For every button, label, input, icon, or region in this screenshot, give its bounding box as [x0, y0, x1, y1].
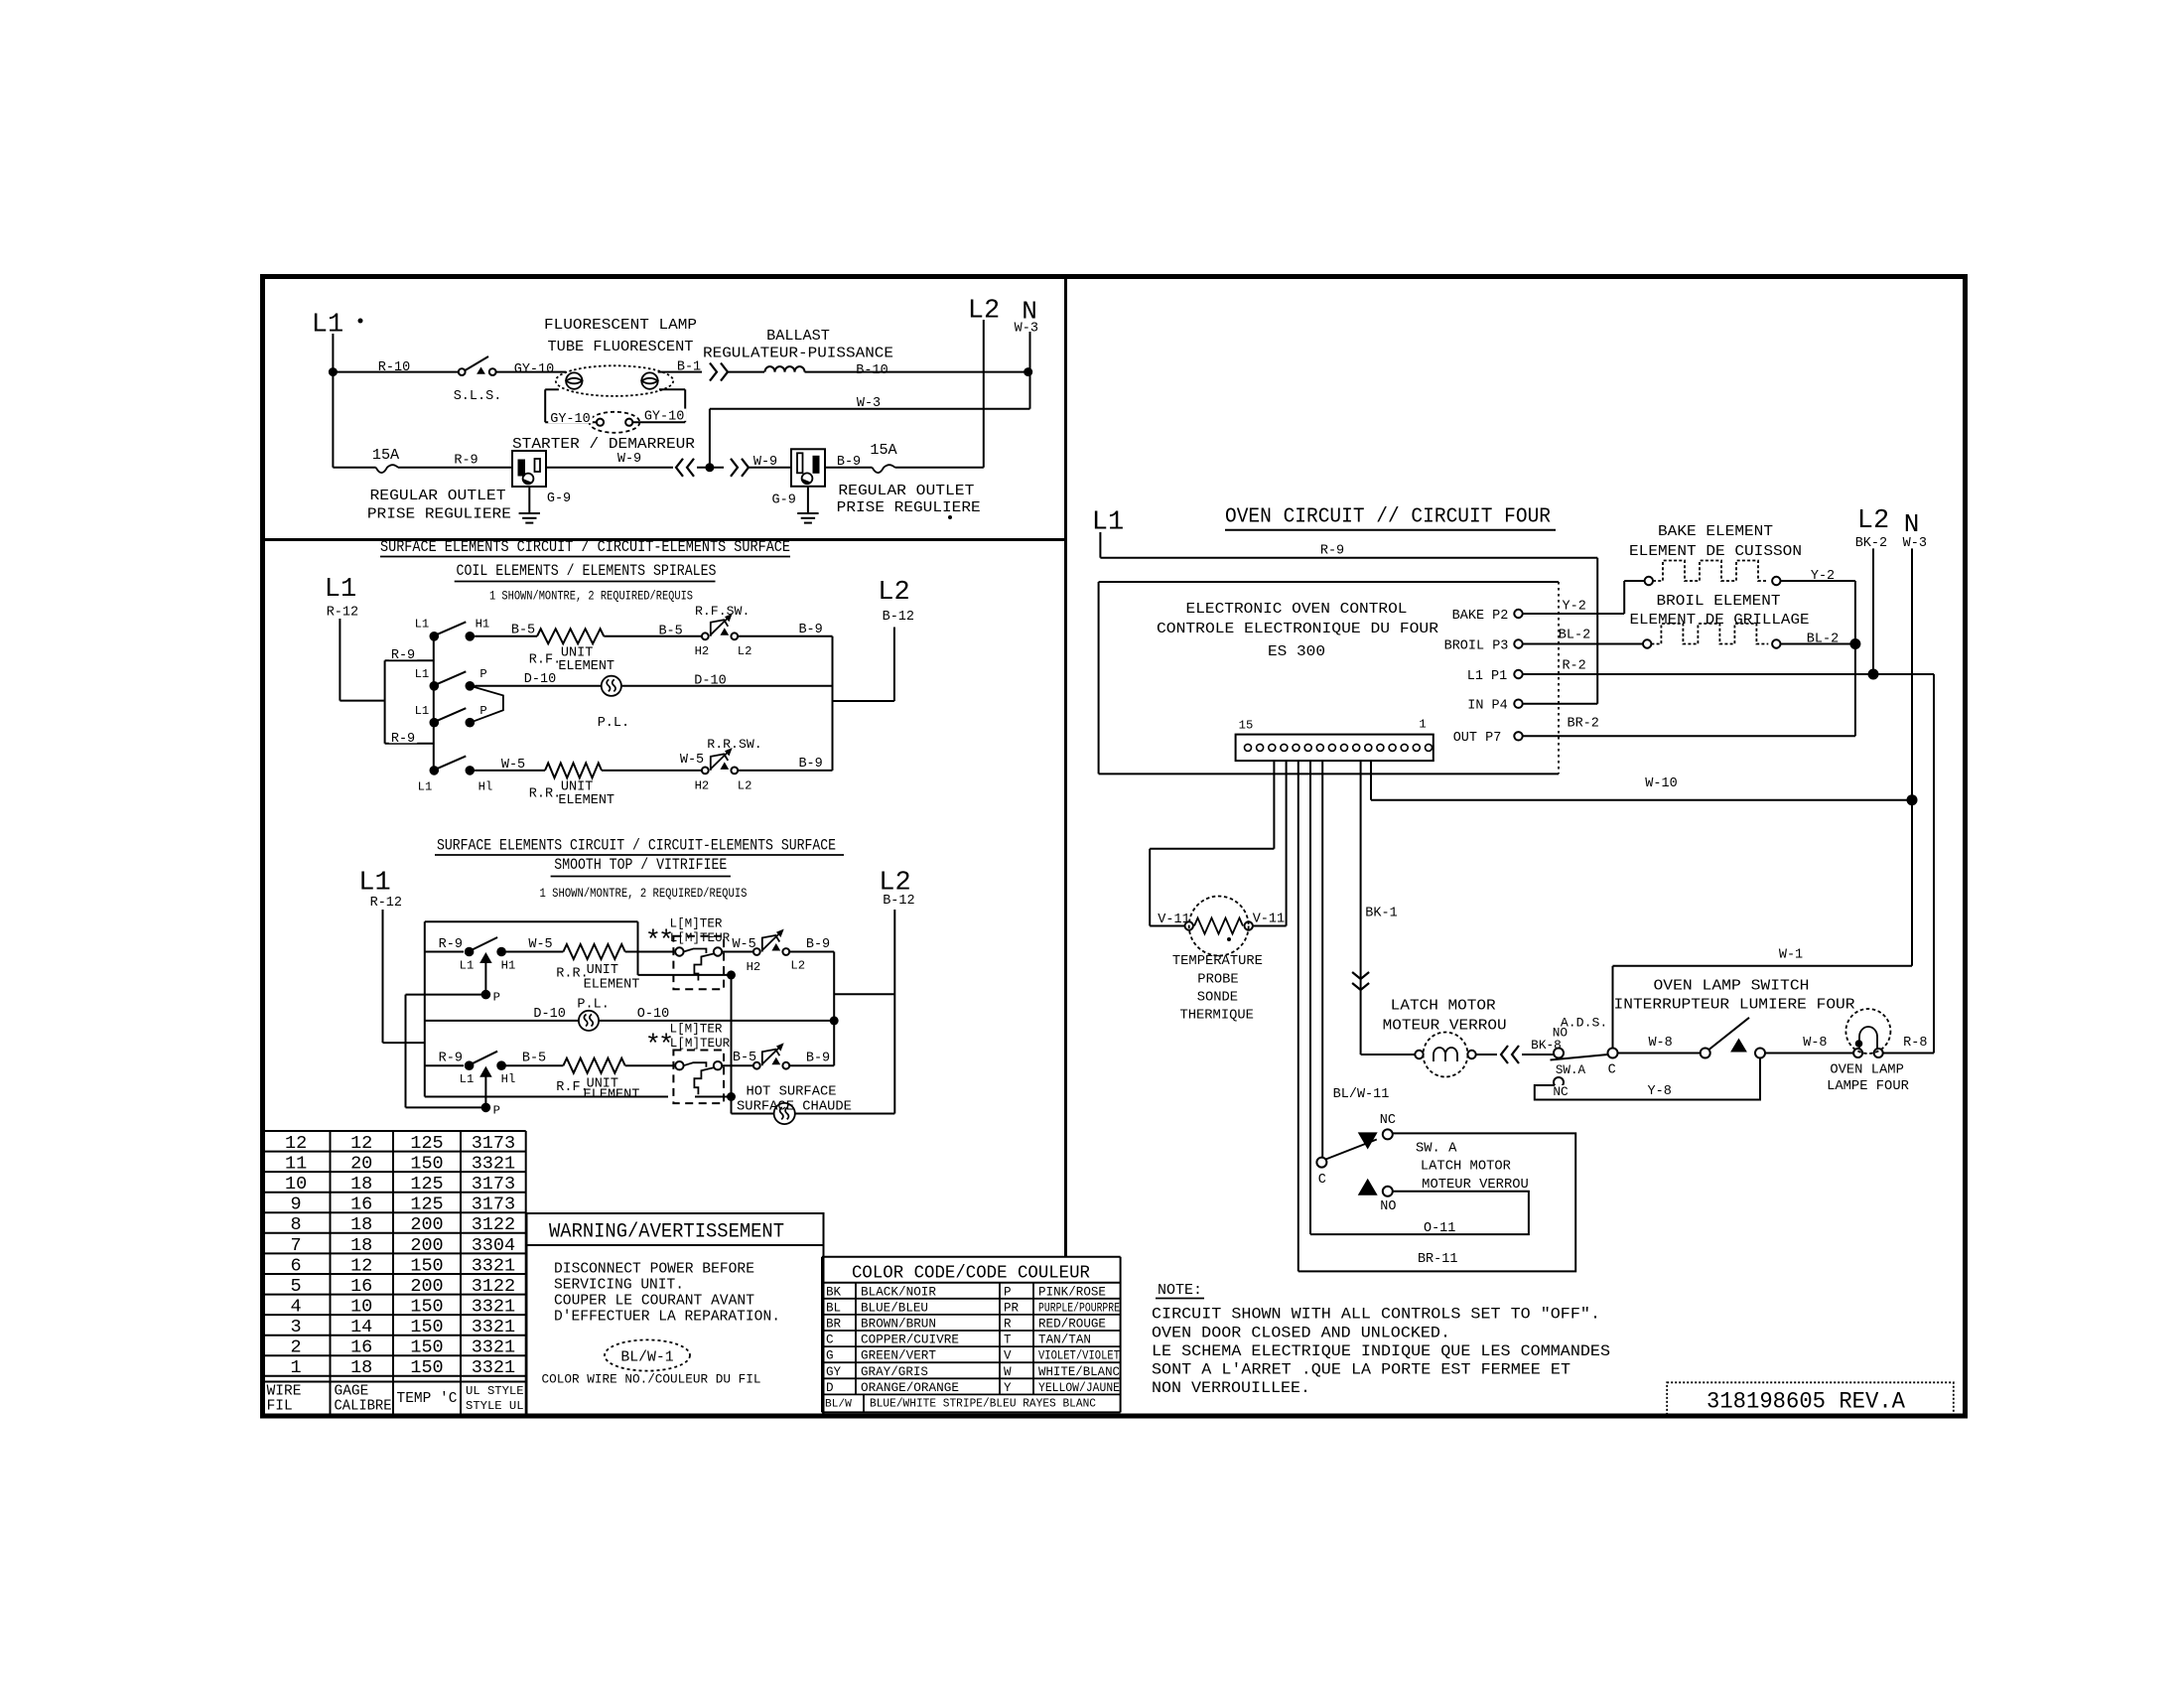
wire W-8 right [1765, 1053, 1853, 1055]
svg-text:ELECTRONIC OVEN CONTROL: ELECTRONIC OVEN CONTROL [1186, 600, 1408, 618]
svg-text:L[M]TER: L[M]TER [670, 1023, 723, 1037]
svg-text:FLUORESCENT LAMP: FLUORESCENT LAMP [544, 316, 697, 334]
svg-text:BL/W-11: BL/W-11 [1333, 1087, 1390, 1102]
svg-text:R-12: R-12 [370, 896, 402, 911]
svg-text:L1: L1 [312, 311, 343, 341]
limiter R.R. smooth [673, 936, 724, 990]
svg-text:6: 6 [291, 1255, 302, 1276]
svg-text:3122: 3122 [472, 1276, 515, 1297]
svg-text:2: 2 [291, 1337, 302, 1358]
svg-text:P.L.: P.L. [598, 716, 629, 731]
svg-text:150: 150 [410, 1297, 443, 1318]
wire L1 drop oven [1099, 532, 1101, 558]
svg-text:C: C [1608, 1062, 1616, 1077]
svg-text:15A: 15A [372, 446, 400, 464]
svg-text:L1: L1 [415, 704, 430, 718]
svg-text:Y-8: Y-8 [1648, 1084, 1672, 1099]
svg-text:WHITE/BLANC: WHITE/BLANC [1038, 1365, 1120, 1379]
svg-text:4: 4 [291, 1297, 302, 1318]
svg-text:L[M]TER: L[M]TER [670, 917, 723, 931]
svg-text:NON VERROUILLEE.: NON VERROUILLEE. [1152, 1379, 1310, 1397]
border divider vertical [1064, 276, 1067, 1257]
label starter [510, 436, 697, 450]
wire P row1 link left [406, 994, 486, 996]
svg-text:OUT P7: OUT P7 [1453, 731, 1502, 746]
svg-text:8: 8 [291, 1214, 302, 1235]
svg-text:BAKE ELEMENT: BAKE ELEMENT [1658, 522, 1773, 540]
resistor R.F. unit element smooth [563, 1058, 624, 1073]
wire BAKE P2 Y-2 [1523, 613, 1625, 615]
switch R.F. infinite [702, 633, 709, 639]
svg-text:H1: H1 [476, 617, 490, 631]
svg-text:COIL ELEMENTS / ELEMENTS SPIRA: COIL ELEMENTS / ELEMENTS SPIRALES [457, 562, 717, 580]
svg-text:OVEN DOOR CLOSED AND UNLOCKED.: OVEN DOOR CLOSED AND UNLOCKED. [1152, 1325, 1450, 1342]
wire W-10 [1370, 761, 1372, 800]
svg-text:**: ** [645, 927, 671, 957]
svg-text:3173: 3173 [472, 1174, 515, 1195]
svg-text:C: C [1318, 1173, 1326, 1188]
svg-text:L1: L1 [460, 958, 475, 972]
svg-text:O-10: O-10 [637, 1007, 669, 1022]
svg-text:14: 14 [350, 1317, 372, 1337]
svg-text:18: 18 [350, 1235, 372, 1256]
wire Y-2 to L2 node [1781, 580, 1855, 582]
oven lamp [1845, 1009, 1890, 1054]
svg-text:1 SHOWN/MONTRE, 2 REQUIRED/REQ: 1 SHOWN/MONTRE, 2 REQUIRED/REQUIS [489, 588, 693, 603]
svg-text:P: P [479, 704, 486, 718]
wire BL/W-11 drop [1297, 761, 1299, 1271]
svg-text:B-9: B-9 [806, 937, 830, 952]
chevron pair right [731, 459, 738, 477]
svg-text:O-11: O-11 [1424, 1221, 1455, 1236]
svg-text:R-9: R-9 [391, 648, 415, 663]
svg-text:3321: 3321 [472, 1255, 515, 1276]
wire N vertical [1029, 332, 1031, 409]
svg-text:10: 10 [285, 1174, 307, 1195]
svg-text:18: 18 [350, 1357, 372, 1378]
limiter R.F. smooth [673, 1051, 724, 1104]
svg-text:P: P [479, 667, 486, 681]
wire label B-10 [854, 362, 890, 374]
svg-text:BL/W: BL/W [825, 1399, 852, 1411]
svg-text:SONT A L'ARRET .QUE LA PORTE E: SONT A L'ARRET .QUE LA PORTE EST FERMEE … [1152, 1361, 1570, 1379]
svg-text:B-9: B-9 [798, 623, 822, 637]
svg-text:12: 12 [285, 1133, 307, 1154]
wire L2 vertical [983, 320, 985, 468]
wire O-11 drop [1309, 761, 1311, 1234]
svg-text:B-12: B-12 [883, 894, 914, 909]
wire R-9 oven [1100, 557, 1597, 559]
switch oven lamp [1701, 1049, 1710, 1058]
wire B-10 [805, 371, 1028, 373]
fuse 15A right [873, 465, 895, 473]
wire limiter2 lower terminal right [695, 1096, 729, 1098]
wire R-9 [398, 467, 512, 469]
svg-text:STARTER / DEMARREUR: STARTER / DEMARREUR [512, 435, 695, 453]
wire limiter1 lower terminal [638, 974, 730, 976]
svg-text:L1: L1 [415, 617, 430, 631]
svg-text:BK-1: BK-1 [1365, 906, 1397, 920]
svg-text:12: 12 [350, 1255, 372, 1276]
junction P smooth row1 [481, 990, 491, 1000]
svg-text:S.L.S.: S.L.S. [454, 389, 502, 404]
connector strip [1236, 735, 1433, 762]
svg-text:CIRCUIT SHOWN WITH ALL CONTROL: CIRCUIT SHOWN WITH ALL CONTROLS SET TO "… [1152, 1306, 1600, 1324]
label NC (A.D.S.) [1551, 1085, 1570, 1097]
svg-text:LE SCHEMA ELECTRIQUE INDIQUE Q: LE SCHEMA ELECTRIQUE INDIQUE QUE LES COM… [1152, 1342, 1610, 1360]
wire W-3 drop [709, 409, 711, 468]
svg-text:3321: 3321 [472, 1154, 515, 1175]
svg-text:3: 3 [291, 1317, 302, 1337]
wire D-10 left [475, 685, 602, 687]
pilot light P.L. coil [602, 676, 621, 696]
svg-text:MOTEUR VERROU: MOTEUR VERROU [1383, 1017, 1507, 1035]
svg-text:3173: 3173 [472, 1133, 515, 1154]
part number box [1667, 1382, 1954, 1416]
wire R-9 to IN P4 [1596, 558, 1598, 704]
svg-text:H2: H2 [695, 778, 710, 792]
svg-text:PRISE REGULIERE: PRISE REGULIERE [837, 498, 981, 516]
switch R.R. infinite smooth [753, 948, 760, 955]
wire BL-2 to junction [1781, 643, 1855, 645]
wire drop to SW.A C [1321, 761, 1323, 1158]
svg-text:ELEMENT: ELEMENT [558, 659, 614, 674]
svg-text:Hl: Hl [501, 1072, 516, 1086]
svg-text:**: ** [645, 1032, 671, 1061]
svg-text:5: 5 [291, 1276, 302, 1297]
border divider horizontal [260, 538, 1066, 541]
svg-text:NC: NC [1553, 1084, 1569, 1099]
wire B-9 row2 to bus [789, 1064, 834, 1066]
svg-text:W-8: W-8 [1648, 1036, 1672, 1051]
wire R-12 drop smooth [382, 910, 384, 1043]
svg-text:R-10: R-10 [378, 360, 410, 375]
label GY-10 starter right [642, 409, 687, 421]
svg-text:150: 150 [410, 1337, 443, 1358]
svg-text:GRAY/GRIS: GRAY/GRIS [861, 1365, 928, 1379]
contact NC triangle [1359, 1133, 1377, 1149]
chevron pair BK-8 [1501, 1046, 1508, 1063]
svg-text:N: N [1904, 509, 1920, 539]
svg-text:L1: L1 [460, 1072, 475, 1086]
svg-text:G: G [826, 1349, 834, 1363]
svg-text:W-10: W-10 [1645, 776, 1677, 791]
svg-text:GY-10: GY-10 [514, 362, 555, 377]
svg-text:COLOR WIRE NO./COULEUR DU FIL: COLOR WIRE NO./COULEUR DU FIL [542, 1371, 761, 1386]
wire BR-2 OUT P7 [1523, 735, 1855, 737]
fluorescent lamp tube [556, 365, 673, 396]
wire L1 drop [332, 334, 334, 372]
svg-text:HOT SURFACE: HOT SURFACE [746, 1085, 836, 1100]
wire R-12 drop [339, 619, 341, 701]
wire W-8 [1618, 1053, 1701, 1055]
ground left outlet [528, 487, 530, 513]
svg-text:7: 7 [291, 1235, 302, 1256]
svg-text:W-5: W-5 [732, 937, 755, 952]
junction BK-2 x R-2 [1868, 669, 1879, 680]
svg-text:150: 150 [410, 1255, 443, 1276]
svg-text:ORANGE/ORANGE: ORANGE/ORANGE [861, 1381, 959, 1395]
wire label BK-8 [1529, 1039, 1564, 1051]
svg-text:BR-11: BR-11 [1418, 1252, 1458, 1267]
wire label R-9 lower [389, 731, 417, 743]
svg-text:D-10: D-10 [524, 672, 556, 687]
wire S-link P to P [471, 686, 503, 723]
junction BL-2 x vertical [1849, 638, 1860, 649]
svg-text:200: 200 [410, 1214, 443, 1235]
svg-text:1: 1 [291, 1357, 302, 1378]
wire R-2/R-8 vertical [1933, 674, 1935, 1054]
svg-text:NO: NO [1553, 1026, 1569, 1041]
resistor R.F. unit element [537, 629, 604, 643]
svg-text:W-9: W-9 [617, 452, 641, 467]
svg-text:3321: 3321 [472, 1357, 515, 1378]
control pins [1514, 610, 1522, 618]
svg-text:REGULATEUR-PUISSANCE: REGULATEUR-PUISSANCE [703, 345, 893, 362]
switch P line contacts L1-P row3 [430, 718, 440, 728]
svg-text:IN P4: IN P4 [1467, 699, 1508, 714]
switch R.F. infinite smooth [753, 1062, 760, 1069]
svg-text:P: P [493, 1104, 500, 1118]
svg-text:3173: 3173 [472, 1195, 515, 1215]
svg-text:H1: H1 [501, 958, 516, 972]
svg-text:OVEN LAMP: OVEN LAMP [1830, 1063, 1904, 1078]
wire L1 bus smooth [424, 921, 426, 1096]
svg-text:TAN/TAN: TAN/TAN [1038, 1334, 1091, 1347]
wire R-10 [333, 371, 458, 373]
svg-text:Y-2: Y-2 [1563, 599, 1586, 614]
switch S.L.S. [459, 368, 466, 375]
svg-text:R.R.SW.: R.R.SW. [707, 737, 761, 752]
svg-text:12: 12 [350, 1133, 372, 1154]
svg-text:BLACK/NOIR: BLACK/NOIR [861, 1285, 936, 1299]
svg-text:3321: 3321 [472, 1317, 515, 1337]
wire D-10 right [621, 685, 833, 687]
svg-text:15A: 15A [870, 441, 897, 459]
wire R-2 L1 P1 [1523, 673, 1934, 675]
junction W-3 x lower wire [705, 463, 714, 472]
svg-text:Hl: Hl [478, 779, 493, 793]
wire BK-1 with arrows [1360, 761, 1362, 1055]
wire B-12 vertical smooth [893, 910, 895, 1114]
regular outlet right [791, 449, 825, 487]
hot surface indicator [774, 1103, 795, 1124]
svg-text:CALIBRE: CALIBRE [335, 1399, 392, 1415]
svg-text:W-1: W-1 [1779, 947, 1803, 962]
svg-text:B-5: B-5 [733, 1051, 756, 1065]
wire probe right [1253, 925, 1287, 927]
chevron pair left [676, 459, 683, 477]
svg-text:COPPER/CUIVRE: COPPER/CUIVRE [861, 1334, 959, 1347]
svg-text:B-5: B-5 [658, 624, 682, 638]
svg-text:COLOR CODE/CODE COULEUR: COLOR CODE/CODE COULEUR [852, 1264, 1090, 1284]
wire B-9 to L2 [895, 467, 984, 469]
wire limiter junction drop [731, 975, 733, 1114]
inductor ballast [765, 366, 775, 372]
svg-text:125: 125 [410, 1174, 443, 1195]
svg-text:BK: BK [826, 1285, 842, 1299]
svg-text:REGULAR OUTLET: REGULAR OUTLET [370, 487, 506, 504]
svg-text:318198605 REV.A: 318198605 REV.A [1706, 1389, 1906, 1416]
arrow P actuator row1 [480, 953, 491, 963]
svg-text:150: 150 [410, 1317, 443, 1337]
svg-text:PRISE REGULIERE: PRISE REGULIERE [367, 504, 511, 522]
svg-text:R-9: R-9 [439, 937, 463, 952]
wire O-10 smooth [599, 1020, 834, 1022]
svg-text:20: 20 [350, 1154, 372, 1175]
svg-text:SW. A: SW. A [1416, 1142, 1457, 1157]
svg-text:PINK/ROSE: PINK/ROSE [1038, 1285, 1106, 1299]
wire BK-2 vertical [1872, 548, 1874, 674]
wire BROIL P3 BL-2 [1523, 643, 1643, 645]
electronic oven control ES 300 box [1099, 581, 1559, 583]
svg-text:L[M]TEUR: L[M]TEUR [670, 931, 731, 945]
wire probe to pin [1273, 761, 1275, 849]
svg-text:P: P [493, 991, 500, 1005]
svg-text:UL STYLE: UL STYLE [466, 1384, 524, 1398]
wire P bus vertical [405, 995, 407, 1108]
svg-text:W-5: W-5 [680, 753, 704, 768]
arrow P actuator row2 [480, 1067, 491, 1077]
svg-text:B-9: B-9 [806, 1051, 830, 1065]
svg-text:STYLE UL: STYLE UL [466, 1399, 524, 1413]
svg-text:BR-2: BR-2 [1567, 717, 1598, 732]
svg-text:Y: Y [1004, 1381, 1012, 1395]
svg-text:16: 16 [350, 1195, 372, 1215]
svg-text:BK-2: BK-2 [1855, 536, 1887, 551]
svg-text:UNIT: UNIT [587, 963, 618, 978]
svg-text:BL-2: BL-2 [1559, 629, 1590, 643]
wire IN P4 [1523, 703, 1598, 705]
svg-text:ELEMENT: ELEMENT [584, 1088, 640, 1103]
svg-text:VIOLET/VIOLET: VIOLET/VIOLET [1038, 1349, 1120, 1363]
svg-text:ELEMENT: ELEMENT [558, 793, 614, 808]
svg-text:SERVICING UNIT.: SERVICING UNIT. [554, 1277, 684, 1293]
svg-text:125: 125 [410, 1133, 443, 1154]
svg-text:R: R [1004, 1318, 1012, 1332]
svg-text:L1: L1 [325, 575, 356, 605]
svg-text:9: 9 [291, 1195, 302, 1215]
svg-text:L2: L2 [738, 644, 752, 658]
wire hot surface left [732, 1113, 775, 1115]
wire probe left [1150, 925, 1184, 927]
svg-text:R-8: R-8 [1903, 1036, 1927, 1051]
svg-text:D: D [826, 1381, 834, 1395]
switch R.R. infinite [702, 768, 709, 774]
svg-text:L1: L1 [358, 869, 390, 899]
svg-text:BR: BR [826, 1318, 842, 1332]
svg-text:W: W [1004, 1365, 1012, 1379]
svg-text:C: C [826, 1334, 834, 1347]
svg-text:L2: L2 [1857, 506, 1889, 536]
wire Y-8 loop [1535, 1058, 1760, 1100]
svg-text:W-5: W-5 [528, 937, 552, 952]
resistor R.R. unit element smooth [563, 944, 624, 959]
wire motor to BK-8 [1476, 1054, 1497, 1055]
junction limiter2 out [727, 1092, 736, 1101]
svg-text:OVEN LAMP SWITCH: OVEN LAMP SWITCH [1654, 977, 1810, 995]
wire W-9 right [749, 467, 791, 469]
wire B-9 row1 to bus [789, 951, 834, 953]
wire P row2 link [406, 1106, 486, 1108]
wire O-11 loop [1310, 1192, 1529, 1234]
wire L1 feed smooth [383, 1042, 425, 1044]
svg-text:MOTEUR VERROU: MOTEUR VERROU [1422, 1178, 1529, 1193]
svg-text:1 SHOWN/MONTRE, 2 REQUIRED/REQ: 1 SHOWN/MONTRE, 2 REQUIRED/REQUIS [540, 886, 748, 901]
svg-text:BROIL ELEMENT: BROIL ELEMENT [1657, 592, 1781, 610]
wire B-9 row1 [738, 635, 832, 637]
wire R-8 [1883, 1053, 1934, 1055]
svg-text:R.F.: R.F. [529, 652, 561, 667]
svg-text:OVEN CIRCUIT // CIRCUIT FOUR: OVEN CIRCUIT // CIRCUIT FOUR [1225, 506, 1551, 529]
svg-text:1: 1 [1419, 717, 1426, 731]
wire to ballast [728, 371, 764, 373]
svg-text:TEMP 'C: TEMP 'C [397, 1391, 458, 1407]
svg-text:B-12: B-12 [883, 610, 914, 625]
svg-text:SURFACE ELEMENTS CIRCUIT / CIR: SURFACE ELEMENTS CIRCUIT / CIRCUIT-ELEME… [380, 538, 790, 556]
svg-text:W-8: W-8 [1803, 1036, 1827, 1051]
wire L2 bus coil [832, 636, 834, 771]
svg-text:LATCH MOTOR: LATCH MOTOR [1421, 1160, 1511, 1175]
pilot light P.L. smooth [579, 1011, 599, 1031]
junction P smooth row2 [481, 1103, 491, 1113]
svg-text:INTERRUPTEUR LUMIERE FOUR: INTERRUPTEUR LUMIERE FOUR [1614, 996, 1855, 1014]
svg-text:TUBE FLUORESCENT: TUBE FLUORESCENT [548, 338, 694, 355]
svg-text:11: 11 [285, 1154, 307, 1175]
svg-text:B-10: B-10 [856, 363, 887, 378]
svg-text:GY-10: GY-10 [644, 409, 685, 424]
svg-text:LAMPE FOUR: LAMPE FOUR [1827, 1079, 1909, 1094]
svg-text:PROBE: PROBE [1197, 973, 1238, 988]
wire B-12 drop [893, 628, 895, 702]
svg-text:BL/W-1: BL/W-1 [620, 1349, 673, 1365]
regular outlet left [512, 451, 546, 487]
wire W-9 [546, 467, 673, 469]
wire to R-9 box [340, 700, 384, 702]
svg-text:LATCH MOTOR: LATCH MOTOR [1391, 997, 1496, 1015]
contact NC (A.D.S.) [1554, 1077, 1564, 1087]
svg-text:T: T [1004, 1334, 1012, 1347]
border frame outer [263, 277, 1966, 1417]
svg-text:D-10: D-10 [533, 1007, 565, 1022]
svg-text:150: 150 [410, 1357, 443, 1378]
svg-text:R-9: R-9 [391, 732, 415, 747]
svg-text:GREEN/VERT: GREEN/VERT [861, 1349, 936, 1363]
latch motor M [1424, 1033, 1468, 1077]
wire limiter2 lower terminal left [425, 1096, 668, 1098]
wire L1 lower drop [332, 372, 334, 468]
svg-text:H2: H2 [747, 960, 761, 974]
wire D-10 smooth [425, 1020, 579, 1022]
wire BK-8 [1522, 1054, 1554, 1055]
svg-text:NO: NO [1380, 1199, 1396, 1214]
svg-text:DISCONNECT POWER BEFORE: DISCONNECT POWER BEFORE [554, 1261, 754, 1277]
svg-text:BROIL P3: BROIL P3 [1444, 638, 1509, 653]
junction W-10 x N [1907, 794, 1918, 805]
svg-text:R.F.SW.: R.F.SW. [695, 604, 750, 619]
svg-text:G-9: G-9 [547, 492, 571, 506]
svg-text:150: 150 [410, 1154, 443, 1175]
wire Y-2/BR-2 vertical [1854, 581, 1856, 736]
svg-text:BALLAST: BALLAST [766, 327, 830, 345]
wire W-3/N vertical oven [1911, 548, 1913, 965]
svg-text:NC: NC [1380, 1113, 1396, 1128]
svg-text:V: V [1004, 1349, 1012, 1363]
svg-text:H2: H2 [695, 644, 710, 658]
svg-text:GY: GY [826, 1365, 842, 1379]
table wire gauge [262, 1130, 526, 1132]
wire B-9 row4 [738, 770, 832, 772]
